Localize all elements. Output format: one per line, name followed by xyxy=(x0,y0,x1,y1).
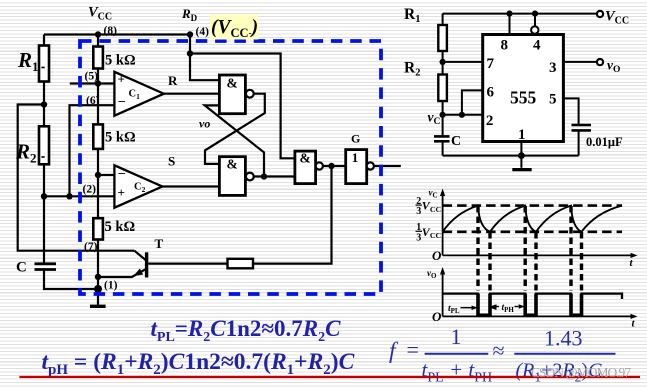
transistor T xyxy=(133,252,146,277)
svg-text:S: S xyxy=(168,154,175,169)
svg-text:&: & xyxy=(227,76,238,91)
IC 555 box xyxy=(483,35,564,142)
wire top NAND output cross to bottom NAND xyxy=(205,94,265,164)
svg-text:3: 3 xyxy=(549,60,557,76)
svg-text:VCC: VCC xyxy=(422,199,442,214)
svg-text:(4): (4) xyxy=(196,26,210,38)
svg-text:C: C xyxy=(451,134,461,149)
svg-text:RD: RD xyxy=(181,6,198,23)
wire C bottom lead to ground node xyxy=(44,270,98,289)
svg-text:t: t xyxy=(632,318,636,330)
wire G output to buffer xyxy=(323,165,346,167)
label tPL with arrows xyxy=(448,304,497,315)
wire G output to transistor base resistor xyxy=(253,166,332,264)
node pin4 junction xyxy=(187,31,193,37)
wire pin4 RD vertical xyxy=(189,35,191,54)
555 boundary dashed box xyxy=(80,41,381,294)
svg-text:2: 2 xyxy=(486,113,494,129)
wire ground lead xyxy=(97,289,99,305)
op-amp C1 xyxy=(114,72,163,116)
svg-text:vO: vO xyxy=(427,268,437,280)
svg-text:555: 555 xyxy=(510,88,537,108)
resistor 5k bottom xyxy=(93,218,103,239)
svg-text:5 kΩ: 5 kΩ xyxy=(105,219,136,235)
wire divider lower xyxy=(97,175,99,218)
NAND gate bottom (S latch) xyxy=(219,157,253,196)
wire R1 top lead xyxy=(442,14,444,25)
label tPH with arrows xyxy=(490,303,525,314)
wire RD to G gate top input xyxy=(190,54,295,159)
dashed level 1/3 VCC xyxy=(443,231,622,234)
resistor R2 xyxy=(39,126,49,164)
label (VCC) highlighted xyxy=(210,15,259,41)
wire pin8 lead xyxy=(509,14,511,35)
op-amp C2 xyxy=(114,165,162,208)
ground right xyxy=(512,168,531,171)
wire R1 bottom to pin7 xyxy=(443,51,483,62)
svg-text:3: 3 xyxy=(416,206,421,217)
capacitor C plates xyxy=(35,264,57,270)
wire pin5 to bypass cap xyxy=(563,98,578,124)
node pin2-pin6 branch xyxy=(66,193,72,199)
svg-text:t: t xyxy=(630,257,634,269)
wire VCC rail right xyxy=(443,13,597,15)
svg-text:R2: R2 xyxy=(404,60,420,79)
svg-text:CSDN @MOMO.97: CSDN @MOMO.97 xyxy=(531,365,631,380)
svg-text:R1: R1 xyxy=(17,48,39,74)
wire C timing leads xyxy=(442,115,444,156)
wire pin3 output xyxy=(563,61,596,63)
wire C top lead xyxy=(43,196,45,263)
svg-text:T: T xyxy=(155,236,164,251)
svg-text:1: 1 xyxy=(352,150,359,165)
wire C2 output to S gate xyxy=(162,185,219,187)
wire pin5 stub to C1 + input xyxy=(70,82,115,84)
svg-text:3: 3 xyxy=(416,232,421,243)
svg-text:+: + xyxy=(118,185,125,200)
resistor R1 xyxy=(39,46,49,82)
svg-text:–: – xyxy=(118,93,126,108)
svg-text:vC: vC xyxy=(429,188,438,200)
LEFT INTERNAL 555 DIAGRAM xyxy=(18,35,401,305)
node dot R2 C pin2 xyxy=(440,112,446,118)
axis vO vertical xyxy=(442,272,444,317)
svg-text:(6): (6) xyxy=(86,95,100,107)
wire divider mid xyxy=(97,84,99,125)
wire divider node2 to C2 - input xyxy=(97,149,99,175)
wire pin6 branch xyxy=(462,90,483,114)
label 2/3 VCC xyxy=(416,196,442,217)
vO square wave xyxy=(443,294,622,316)
wire R1 bottom lead xyxy=(43,82,45,105)
node R1-R2 junction xyxy=(41,101,47,107)
svg-text:tPL: tPL xyxy=(448,304,460,315)
vO low level thick segments xyxy=(478,313,582,317)
wire buffer output pin3 xyxy=(374,165,401,167)
resistor 5k middle xyxy=(93,124,103,148)
wire R2 leads xyxy=(442,62,444,115)
WAVEFORM vO PLOT xyxy=(443,272,634,317)
wire pin2 rail to C2 + input xyxy=(44,195,114,197)
node dot pin4 rail xyxy=(532,11,538,17)
node pin5 divider xyxy=(95,80,101,86)
pin4 reset bubble xyxy=(531,26,538,33)
dashed level 2/3 VCC xyxy=(443,204,622,207)
svg-text:VCC: VCC xyxy=(88,5,112,23)
wire top NAND feedback input cross xyxy=(205,105,264,176)
wire VCC rail top xyxy=(44,33,190,35)
wire R2 top lead xyxy=(43,105,45,127)
resistor R2 right xyxy=(438,75,447,102)
svg-text:7: 7 xyxy=(487,56,495,72)
wire R2 bottom lead xyxy=(43,164,45,196)
wire pin8 to divider xyxy=(97,35,99,47)
svg-text:(7): (7) xyxy=(84,241,98,253)
axis vC horizontal xyxy=(443,254,634,256)
svg-text:≈: ≈ xyxy=(493,338,505,363)
wire pin1 lead xyxy=(520,142,522,156)
svg-text:O: O xyxy=(432,248,442,263)
wire pin4 lead xyxy=(534,14,536,27)
svg-text:4: 4 xyxy=(533,38,541,54)
node divider C2 ref xyxy=(95,172,101,178)
svg-text:tpH = (R1+R2)C1n2≈0.7(R1+R2)C: tpH = (R1+R2)C1n2≈0.7(R1+R2)C xyxy=(42,349,355,378)
vC charging waveform xyxy=(443,206,622,232)
svg-text:6: 6 xyxy=(487,85,495,101)
svg-text:5 kΩ: 5 kΩ xyxy=(105,53,136,69)
node pin8 junction xyxy=(95,31,101,37)
svg-text:VCC: VCC xyxy=(422,225,442,240)
resistor R1 right xyxy=(438,25,447,51)
terminal VCC xyxy=(597,11,603,17)
wire R1 top lead xyxy=(43,35,45,46)
node pin1 ground xyxy=(94,285,102,293)
svg-text:(1): (1) xyxy=(104,280,118,292)
svg-text:(2): (2) xyxy=(83,184,97,196)
resistor base R horizontal xyxy=(228,259,254,269)
label R1 tick xyxy=(41,67,44,69)
axis vC arrowheads xyxy=(440,189,445,197)
wire C2 - stub xyxy=(98,174,114,176)
svg-text:1.43: 1.43 xyxy=(544,326,583,351)
node G output xyxy=(328,163,334,169)
vO pulse edges thick xyxy=(478,294,582,316)
ground internal xyxy=(90,305,106,308)
svg-text:tPL=R2C1n2≈0.7R2C: tPL=R2C1n2≈0.7R2C xyxy=(151,316,342,345)
wire bottom rail xyxy=(443,155,579,157)
NAND gate top (R latch) xyxy=(219,75,253,114)
wire base resistor to transistor xyxy=(148,263,227,265)
wire RD to top NAND input xyxy=(190,54,219,81)
node dot pin6 tie xyxy=(459,112,465,118)
node emitter junction xyxy=(95,274,101,280)
node R2-C junction xyxy=(41,193,47,199)
svg-text:5: 5 xyxy=(549,92,557,108)
svg-text:f: f xyxy=(389,338,399,364)
wire transistor emitter xyxy=(98,269,146,277)
wire pin7 branch from R1-R2 junction xyxy=(18,105,135,251)
node dot R1 R2 pin7 xyxy=(440,59,446,65)
resistor 5k top xyxy=(93,47,103,69)
buffer gate 1 xyxy=(346,150,374,184)
wire bottom NAND output to G gate xyxy=(254,175,295,177)
svg-text:1: 1 xyxy=(518,127,526,143)
svg-text:tPL + tPH: tPL + tPH xyxy=(422,358,493,386)
svg-text:G: G xyxy=(351,132,360,146)
svg-text:=: = xyxy=(407,337,419,362)
svg-text:R2: R2 xyxy=(15,140,37,166)
axis vO arrowheads xyxy=(440,267,445,275)
svg-text:O: O xyxy=(432,309,442,324)
wire divider to ground xyxy=(97,240,99,290)
node dot pin8 rail xyxy=(506,11,512,17)
node latch output xyxy=(261,173,267,179)
formula f fraction xyxy=(389,324,616,386)
svg-text:(5): (5) xyxy=(85,71,99,83)
svg-text:–: – xyxy=(118,165,126,180)
wire bypass cap bottom xyxy=(578,131,580,156)
node RD branch xyxy=(187,50,193,56)
capacitor 0.01uF plates xyxy=(572,125,592,130)
wire C1 output to R gate xyxy=(164,93,220,95)
svg-text:VCC: VCC xyxy=(605,9,629,27)
svg-text:vC: vC xyxy=(428,110,441,128)
svg-text:(8): (8) xyxy=(104,25,118,37)
svg-text:&: & xyxy=(227,157,238,172)
svg-text:0.01μF: 0.01μF xyxy=(586,135,623,149)
terminal vO xyxy=(597,59,603,65)
RIGHT 555 APPLICATION CIRCUIT xyxy=(443,14,597,168)
dashed verticals peak/valley xyxy=(478,206,582,291)
svg-text:C: C xyxy=(16,260,27,276)
svg-text:vo: vo xyxy=(199,117,210,131)
svg-text:1: 1 xyxy=(451,324,462,349)
capacitor C right plates xyxy=(434,136,450,141)
axis vO horizontal xyxy=(443,315,634,317)
NAND gate G xyxy=(295,151,323,184)
wire pin1 ground lead xyxy=(520,156,522,168)
svg-text:R: R xyxy=(168,73,178,88)
label R2 tick xyxy=(41,156,44,158)
wire pin6 branch to C1 - input xyxy=(70,105,115,196)
svg-text:tPH: tPH xyxy=(502,303,515,314)
wire pin2 xyxy=(443,114,483,116)
axis vC vertical xyxy=(442,193,444,255)
svg-text:R1: R1 xyxy=(404,6,420,25)
label 1/3 VCC xyxy=(416,222,442,243)
WAVEFORM vC PLOT xyxy=(443,193,634,255)
svg-text:vO: vO xyxy=(607,58,620,76)
red underline xyxy=(19,376,640,378)
wire transistor collector diagonal xyxy=(134,251,146,261)
svg-text:&: & xyxy=(300,151,311,166)
wire divider node pin5 xyxy=(97,69,99,84)
svg-text:+: + xyxy=(118,72,125,87)
svg-text:8: 8 xyxy=(501,38,509,54)
node dot pin1 rail xyxy=(518,152,525,159)
svg-text:5 kΩ: 5 kΩ xyxy=(105,130,136,146)
